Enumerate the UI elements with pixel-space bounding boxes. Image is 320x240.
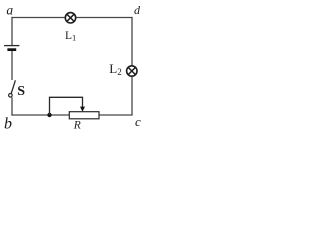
svg-text:S: S [17,84,25,99]
svg-text:R: R [73,119,81,131]
svg-text:a: a [6,3,13,18]
svg-text:d: d [134,3,141,17]
svg-text:L1: L1 [65,30,76,43]
svg-text:c: c [135,114,141,129]
svg-text:b: b [4,116,12,133]
